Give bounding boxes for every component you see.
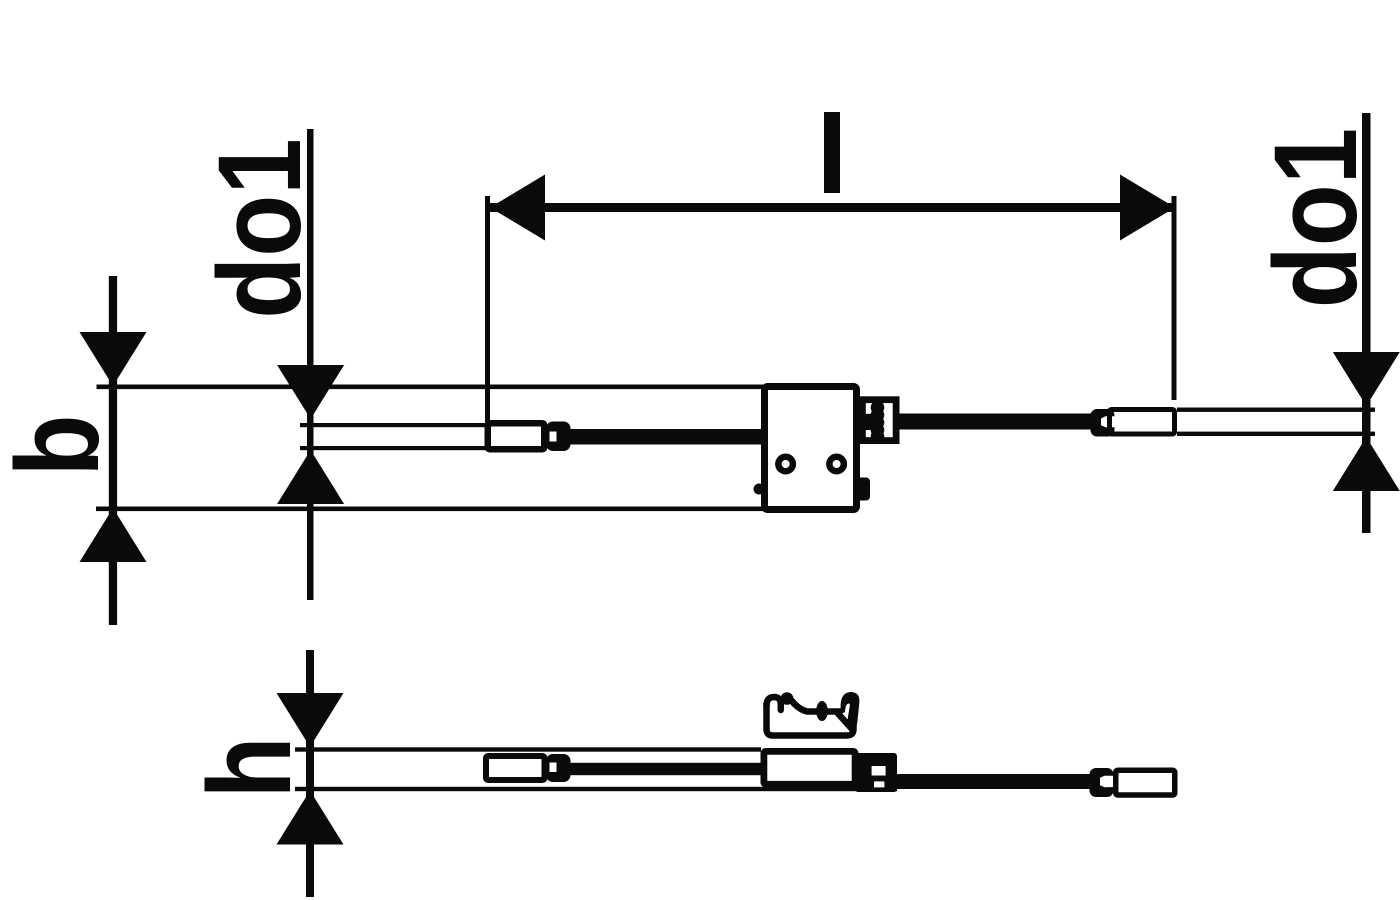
mounting clip knob left	[781, 692, 794, 705]
svg-text:b: b	[0, 415, 124, 477]
svg-text:do1: do1	[1250, 128, 1382, 308]
dimension h line	[306, 650, 314, 897]
dimension b top arrow	[80, 332, 147, 386]
strain relief frame (top view)	[862, 400, 896, 441]
coupler (side view)	[546, 754, 571, 782]
dimension do1 right top arrow	[1333, 352, 1400, 406]
piston rod bar (side view)	[566, 763, 764, 775]
tube bottom outline line (top view)	[96, 507, 768, 512]
tube top outline line (top view)	[97, 385, 768, 390]
dimension do1 left top arrow	[277, 365, 344, 419]
cable ferrule (top view)	[1091, 409, 1115, 437]
cable ferrule (side view)	[1090, 768, 1114, 797]
svg-text:h: h	[184, 737, 316, 799]
dimension do1 left bottom arrow	[277, 450, 344, 504]
dimension b line	[109, 276, 117, 625]
mounting clip (side view)	[767, 697, 854, 736]
dimension do1 right bottom arrow	[1333, 437, 1400, 491]
piston rod bar (top view)	[566, 429, 764, 445]
plunger sleeve (side view)	[486, 756, 545, 780]
dimension h top arrow	[277, 693, 344, 747]
motor block (top view)	[765, 387, 857, 510]
dimension l extension line left	[485, 196, 490, 424]
cable (side view)	[893, 774, 1092, 789]
dimension b bottom arrow	[80, 508, 147, 562]
mounting clip right hook	[841, 692, 860, 727]
coupler notch (top view)	[550, 432, 557, 442]
body bottom outline line (side view)	[295, 787, 897, 791]
coupler (top view)	[546, 422, 571, 452]
ferrule notch (top view)	[1101, 416, 1119, 427]
block hole left	[778, 457, 793, 472]
body top outline line (side view)	[295, 747, 761, 751]
svg-text:do1: do1	[194, 138, 326, 318]
mounting clip knob middle	[816, 701, 828, 721]
connector assembly notch 2 (side view)	[874, 781, 884, 787]
rod bottom line left (top view)	[300, 446, 487, 450]
dimension label l	[824, 112, 840, 193]
rod bottom line right (top view)	[1177, 432, 1375, 436]
dimension l right arrow	[1120, 175, 1175, 241]
coupler notch (side view)	[550, 763, 557, 773]
dimension do1 right line	[1362, 113, 1371, 533]
connector assembly notch 1 (side view)	[872, 766, 886, 776]
block right tab (top view)	[857, 478, 870, 501]
plunger sleeve (top view)	[488, 423, 545, 449]
strain relief stub	[859, 414, 874, 430]
dimension h bottom arrow	[277, 791, 344, 845]
ferrule notch (side view)	[1100, 776, 1120, 788]
connector (top view)	[1110, 410, 1175, 435]
dimension do1 left line	[307, 129, 314, 600]
strain relief coil	[871, 401, 885, 444]
block left bump (top view)	[754, 484, 765, 495]
connector assembly (side view)	[855, 753, 897, 792]
motor block (side view)	[764, 751, 855, 784]
rod top line right (top view)	[1177, 408, 1375, 412]
connector (side view)	[1116, 770, 1175, 795]
dimension l extension line right	[1172, 196, 1177, 400]
rod top line left (top view)	[300, 423, 487, 427]
cable (top view)	[897, 414, 1093, 430]
dimension l left arrow	[490, 175, 545, 241]
dimension l line	[490, 203, 1175, 212]
block hole right	[829, 457, 844, 472]
